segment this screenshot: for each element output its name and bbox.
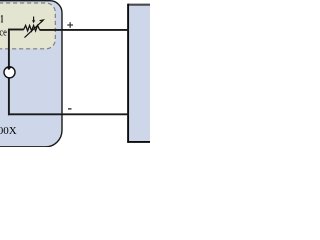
plus label	[67, 22, 73, 28]
svg-text:00X: 00X	[0, 125, 17, 137]
minus label	[68, 108, 72, 110]
label fragment line 1: ...l	[2, 15, 3, 22]
light/down arrow onto resistor	[33, 17, 35, 21]
label fragment line 2: ...ce	[0, 28, 7, 39]
current source circle	[4, 67, 15, 78]
left block (photocell stage, rounded rect)	[0, 1, 62, 147]
right block bottom border	[127, 141, 151, 143]
wire: left vertical lower	[8, 78, 10, 116]
source arrow head (down)	[7, 67, 12, 70]
wire: left vertical upper	[8, 29, 10, 68]
wire: top long run to right block	[40, 29, 130, 31]
right block top border	[127, 4, 151, 6]
right block left border	[127, 4, 129, 143]
wire: top left stub	[9, 29, 24, 31]
dashed olive group box	[0, 3, 55, 49]
svg-text:ce: ce	[0, 28, 7, 39]
variable-resistor diagonal arrow	[25, 20, 44, 37]
wire: bottom run to right block	[8, 113, 129, 115]
photoresistor R zigzag	[24, 25, 40, 31]
right block	[127, 4, 153, 143]
